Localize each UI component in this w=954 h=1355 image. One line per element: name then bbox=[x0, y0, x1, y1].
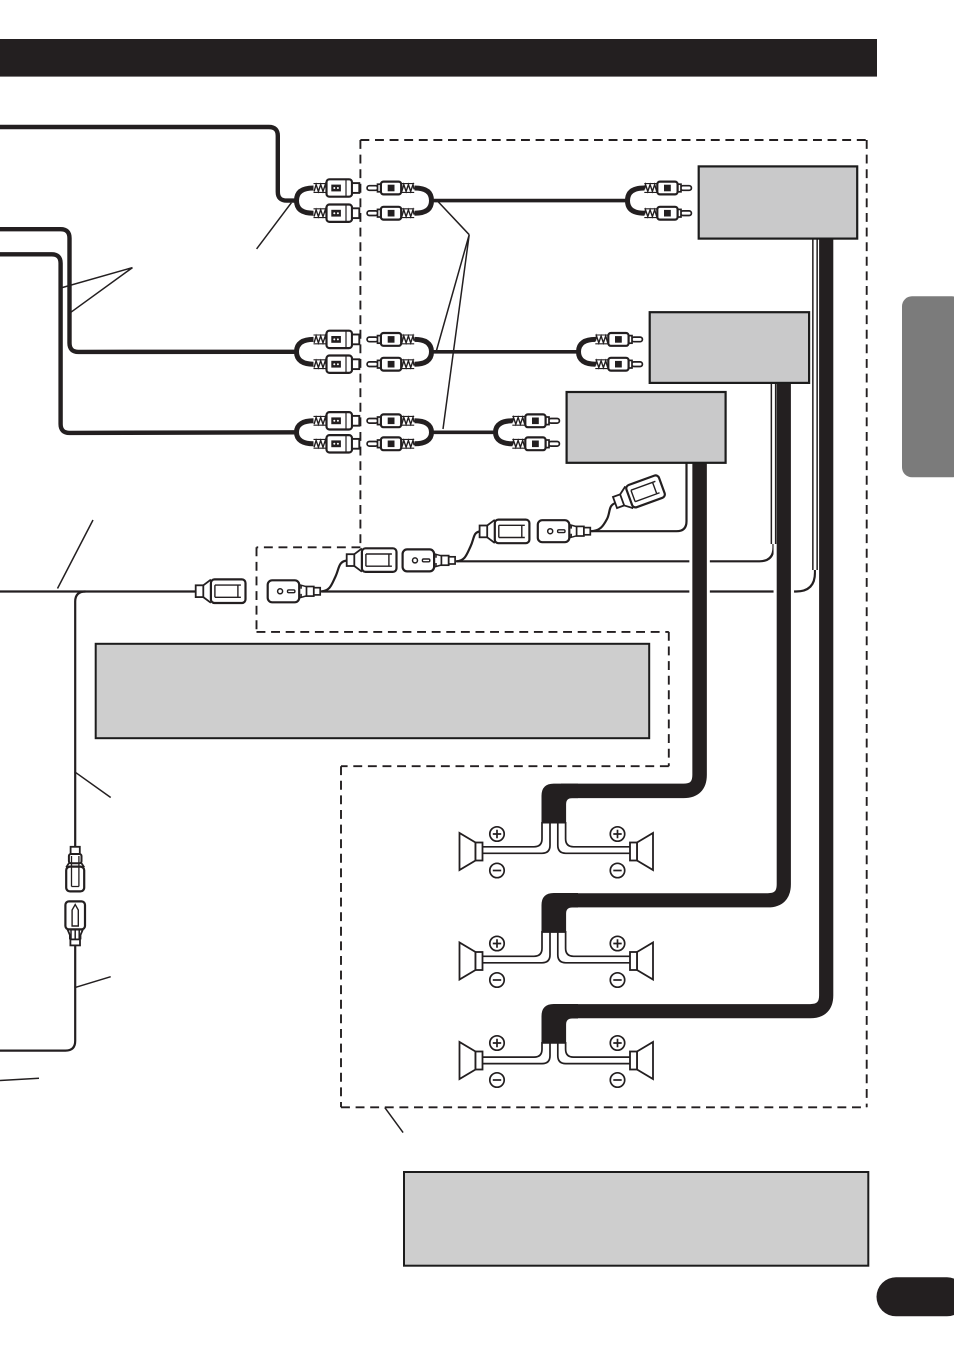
RCA plug row 3 top bbox=[367, 414, 414, 427]
plus row1 right bbox=[610, 827, 624, 841]
RCA plug into unit 2 top bbox=[595, 333, 642, 346]
wire RCA extension row 1 bbox=[432, 199, 628, 203]
plus row3 left bbox=[490, 1036, 504, 1050]
callout line antenna wire bbox=[58, 520, 94, 589]
minus row2 left bbox=[490, 973, 504, 987]
unit box 1 (top right) bbox=[699, 166, 858, 238]
callout lines feed wires bbox=[60, 268, 132, 313]
speaker cable trunk row 3 bbox=[542, 1004, 579, 1044]
speaker wire row2 left - bbox=[482, 931, 550, 963]
wire horizontal B to unit 2 bbox=[457, 383, 774, 561]
speaker cable from unit 3 bbox=[561, 460, 700, 791]
wire feed 3 bbox=[0, 254, 299, 433]
wire S-curve to female B bbox=[321, 560, 348, 591]
RCA jumper U into unit 2 bbox=[579, 339, 596, 364]
minus row1 left bbox=[490, 863, 504, 877]
wire RCA extension row 3 bbox=[432, 430, 496, 434]
wire RCA extension row 2 bbox=[432, 350, 579, 354]
wire S-curve to female C bbox=[456, 531, 481, 561]
female terminal F0 bbox=[196, 579, 246, 603]
callout line left column lower bbox=[75, 977, 111, 988]
RCA jumper U into unit 1 bbox=[628, 188, 645, 213]
wire feed 2 bbox=[0, 229, 299, 352]
RCA female jack row 2 top bbox=[314, 331, 360, 348]
speaker cable white halos bbox=[542, 236, 827, 1044]
speaker wire row1 right - bbox=[558, 822, 630, 853]
RCA plug into unit 1 top bbox=[644, 182, 691, 195]
MAIN-WIRES-LAYER bbox=[0, 200, 815, 1133]
minus row3 right bbox=[610, 1073, 624, 1087]
male terminal C bbox=[538, 520, 591, 542]
speaker row1 right bbox=[630, 833, 653, 870]
RCA female jack row 1 bottom bbox=[314, 205, 360, 222]
speaker wire row1 left - bbox=[482, 822, 550, 853]
RCA jumper U right row 2 bbox=[415, 339, 432, 364]
wire horizontal A to unit 1 bbox=[322, 239, 815, 592]
wire antenna lead from page edge to female terminal bbox=[0, 590, 196, 592]
callout line bottom left bbox=[0, 1078, 39, 1080]
speaker wire row3 left + bbox=[482, 1042, 542, 1057]
speaker wire row3 right + bbox=[566, 1042, 630, 1057]
plus row2 left bbox=[490, 936, 504, 950]
RCA jumper U left row 1 bbox=[297, 188, 314, 213]
right edge section tab bbox=[902, 296, 954, 477]
plus row1 left bbox=[490, 827, 504, 841]
unit box 3 (lower) bbox=[567, 392, 726, 463]
RCA jumper U left row 2 bbox=[297, 339, 314, 364]
note box bottom bbox=[404, 1172, 868, 1266]
speaker wire row1 left + bbox=[482, 822, 542, 847]
RCA jumper U left row 3 bbox=[297, 421, 314, 444]
callout line RCA row 1 bbox=[257, 203, 292, 249]
speaker wire row1 right + bbox=[566, 822, 630, 847]
speaker wire row2 right + bbox=[566, 931, 630, 956]
plus row2 right bbox=[610, 936, 624, 950]
female terminal D (tilted) bbox=[611, 474, 666, 513]
RCA plug into unit 1 bottom bbox=[644, 207, 691, 220]
RCA jumper U into unit 3 bbox=[496, 421, 513, 444]
female terminal B bbox=[347, 548, 397, 572]
callout lines RCA extension cables bbox=[436, 200, 469, 429]
RCA female jack row 1 top bbox=[314, 179, 360, 196]
white-cored wire to unit 2 bbox=[771, 383, 777, 544]
speaker row1 left bbox=[460, 833, 483, 870]
dashed grouping outline bbox=[257, 140, 867, 1107]
minus row2 right bbox=[610, 973, 624, 987]
RCA plug into unit 2 bottom bbox=[595, 358, 642, 371]
white-cored wire to unit 1 bbox=[812, 239, 818, 570]
speaker cable trunk row 2 bbox=[542, 893, 579, 933]
minus row1 right bbox=[610, 863, 624, 877]
speaker wire row2 left + bbox=[482, 931, 542, 956]
speaker row2 right bbox=[630, 943, 653, 980]
wire branch down left column bbox=[75, 592, 85, 848]
RCA jumper U right row 1 bbox=[415, 188, 432, 213]
feed wires from head unit bbox=[0, 127, 299, 433]
speaker cable from unit 2 bbox=[561, 380, 784, 900]
speaker row2 left bbox=[460, 943, 483, 980]
speaker row3 right bbox=[630, 1042, 653, 1079]
RCA plug row 3 bottom bbox=[367, 437, 414, 450]
RCA plug row 1 bottom bbox=[367, 207, 414, 220]
RCA plug row 2 top bbox=[367, 333, 414, 346]
female terminal C bbox=[480, 520, 530, 544]
male terminal B bbox=[403, 549, 456, 571]
RCA plug row 2 bottom bbox=[367, 358, 414, 371]
RCA plug into unit 3 bottom bbox=[512, 437, 559, 450]
callout line left column upper bbox=[75, 772, 111, 798]
speaker wire row3 left - bbox=[482, 1042, 550, 1064]
note box middle bbox=[96, 644, 650, 738]
RCA female jack row 3 bottom bbox=[314, 435, 360, 452]
wire left column below bullet pair to page edge bbox=[0, 946, 75, 1051]
speaker cable from unit 1 bbox=[561, 236, 826, 1011]
title bar bbox=[0, 39, 877, 77]
RCA plug into unit 3 top bbox=[512, 414, 559, 427]
wire S-curve to female D bbox=[591, 503, 616, 531]
bullet female terminal bbox=[66, 847, 84, 892]
speaker wire row3 right - bbox=[558, 1042, 630, 1064]
bullet male terminal bbox=[65, 901, 85, 945]
speaker wire row2 right - bbox=[558, 931, 630, 963]
plus row3 right bbox=[610, 1036, 624, 1050]
RCA plug row 1 top bbox=[367, 182, 414, 195]
minus row3 left bbox=[490, 1073, 504, 1087]
RCA female jack row 3 top bbox=[314, 412, 360, 429]
male terminal A bbox=[268, 580, 321, 602]
wire feed 1 bbox=[0, 127, 298, 201]
speaker row3 left bbox=[460, 1042, 483, 1079]
bottom right page tab bbox=[877, 1277, 954, 1316]
callout line speaker group bbox=[385, 1108, 403, 1133]
RCA jumper U right row 3 bbox=[415, 421, 432, 444]
speaker cable trunk row 1 bbox=[542, 784, 579, 824]
wire horizontal C to unit 3 bbox=[592, 463, 687, 531]
unit box 2 (middle) bbox=[650, 312, 809, 383]
RCA female jack row 2 bottom bbox=[314, 356, 360, 373]
